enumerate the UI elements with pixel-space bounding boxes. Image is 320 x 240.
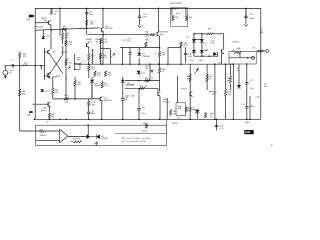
svg-text:C.7: C.7 — [11, 60, 14, 62]
svg-text:C15: C15 — [250, 14, 253, 16]
svg-text:R67: R67 — [175, 17, 178, 19]
svg-text:(D): (D) — [67, 33, 70, 35]
svg-text:16?: 16? — [65, 102, 68, 104]
svg-text:fp74: fp74 — [176, 13, 180, 15]
svg-text:7b: 7b — [151, 78, 153, 80]
svg-text:8P4T5: 8P4T5 — [61, 52, 67, 54]
svg-text:PCB17C: PCB17C — [232, 42, 240, 44]
svg-text:8V0.8UB: 8V0.8UB — [105, 28, 113, 30]
svg-text:10b: 10b — [145, 85, 148, 87]
svg-text:240: 240 — [69, 44, 72, 46]
svg-text:C9: C9 — [46, 121, 48, 123]
svg-text:1.2meg: 1.2meg — [141, 131, 147, 133]
svg-text:3.7S: 3.7S — [103, 41, 108, 43]
svg-text:TDA750: TDA750 — [40, 134, 47, 137]
svg-text:3B0: 3B0 — [90, 24, 93, 26]
svg-text:7Ob: 7Ob — [228, 94, 232, 96]
svg-text:67Oa: 67Oa — [210, 43, 214, 45]
svg-text:GHT81WZN: GHT81WZN — [170, 3, 182, 5]
svg-text:C.61: C.61 — [241, 104, 245, 106]
svg-text:D4?: D4? — [45, 91, 48, 93]
svg-text:1000u: 1000u — [245, 122, 250, 124]
svg-text:DUK: DUK — [245, 131, 250, 134]
svg-text:C13: C13 — [141, 107, 144, 109]
svg-text:760: 760 — [51, 116, 54, 118]
svg-text:D?b: D?b — [190, 60, 193, 62]
svg-text:B6U: B6U — [199, 60, 203, 62]
svg-text:~: ~ — [4, 71, 6, 75]
svg-text:R6?: R6? — [208, 28, 211, 30]
svg-text:670u: 670u — [141, 113, 145, 115]
svg-text:5Bb: 5Bb — [188, 111, 191, 113]
svg-text:C6B: C6B — [131, 95, 135, 97]
svg-text:PCB.7C: PCB.7C — [181, 88, 188, 90]
svg-text:1.25: 1.25 — [220, 128, 224, 130]
svg-text:C6?: C6? — [122, 40, 125, 42]
svg-text:RNW_2: RNW_2 — [40, 132, 47, 134]
svg-text:0.1y: 0.1y — [250, 88, 254, 90]
svg-text:B?7: B?7 — [53, 52, 56, 54]
svg-text:2B0: 2B0 — [145, 36, 148, 38]
svg-text:1p4r: 1p4r — [160, 33, 164, 36]
svg-text:1b8: 1b8 — [92, 104, 95, 106]
svg-text:5b: 5b — [210, 116, 212, 118]
svg-text:PO6: PO6 — [104, 85, 108, 87]
svg-text:8P4T?: 8P4T? — [56, 76, 62, 78]
svg-text:R6b: R6b — [145, 40, 148, 42]
svg-text:7b: 7b — [209, 78, 211, 80]
svg-text:58?: 58? — [173, 113, 176, 115]
svg-text:478: 478 — [77, 84, 80, 86]
svg-text:UN8: UN8 — [26, 19, 30, 21]
svg-text:UN8: UN8 — [27, 115, 31, 117]
svg-text:4.8?: 4.8? — [162, 55, 166, 57]
svg-text:1B0p: 1B0p — [91, 113, 95, 115]
svg-text:(8V0.5B): (8V0.5B) — [104, 100, 112, 102]
svg-text:R66: R66 — [189, 17, 192, 19]
svg-text:80V: 80V — [260, 32, 264, 34]
svg-text:Q14: Q14 — [88, 41, 92, 43]
svg-text:R6?: R6? — [63, 26, 66, 28]
svg-text:8P760: 8P760 — [172, 123, 177, 125]
svg-text:478: 478 — [65, 37, 68, 39]
svg-text:R1Z: R1Z — [125, 95, 129, 97]
svg-text:+C8: +C8 — [46, 35, 50, 37]
svg-text:4b: 4b — [96, 41, 98, 43]
svg-text:R6b: R6b — [145, 78, 148, 80]
svg-text:1.2u: 1.2u — [10, 70, 14, 72]
svg-text:+: + — [60, 132, 62, 134]
svg-text:R6B: R6B — [237, 48, 241, 50]
svg-text:73k: 73k — [227, 80, 230, 82]
svg-text:1.6k: 1.6k — [103, 57, 107, 59]
svg-text:JU?: JU? — [203, 44, 206, 46]
svg-text:1.08: 1.08 — [97, 75, 101, 77]
svg-text:16: 16 — [91, 58, 93, 60]
svg-text:5.6: 5.6 — [162, 71, 165, 73]
svg-text:C6: C6 — [54, 13, 56, 15]
svg-text:HT8 _ fre. beach 8M...59D kHz: HT8 _ fre. beach 8M...59D kHz — [122, 140, 146, 143]
svg-text:478: 478 — [54, 92, 57, 94]
svg-text:/370a: /370a — [249, 18, 255, 20]
svg-text:870: 870 — [69, 63, 72, 65]
svg-text:47k: 47k — [23, 56, 26, 58]
svg-text:2-2meg: 2-2meg — [74, 138, 80, 140]
svg-text:R6O: R6O — [139, 85, 143, 87]
svg-text:HT8 _ Rsat ±5.43 W/m ... ±5.4: HT8 _ Rsat ±5.43 W/m ... ±5.45 W/m — [122, 137, 151, 140]
svg-text:13k: 13k — [25, 65, 28, 67]
svg-text:R6b: R6b — [64, 95, 67, 97]
svg-text:R1b: R1b — [108, 75, 111, 77]
svg-text:+10u: +10u — [126, 41, 130, 43]
svg-text:140p: 140p — [89, 14, 93, 16]
svg-text:D16: D16 — [125, 84, 128, 86]
svg-text:(p4v2): (p4v2) — [41, 110, 47, 112]
svg-text:GTB: GTB — [43, 20, 48, 22]
svg-text:ZRV4-B: ZRV4-B — [101, 138, 108, 140]
svg-text:4B0: 4B0 — [77, 60, 80, 62]
svg-text:80V: 80V — [264, 86, 268, 88]
svg-text:1B?: 1B? — [177, 118, 180, 120]
svg-text:499k: 499k — [22, 94, 26, 96]
svg-text:C.4?: C.4? — [185, 37, 189, 39]
svg-text:4.7k: 4.7k — [184, 45, 188, 47]
svg-text:C.6b: C.6b — [256, 97, 260, 99]
svg-text:AZB: AZB — [178, 107, 182, 110]
svg-text:D16: D16 — [141, 73, 144, 75]
svg-text:2200u: 2200u — [249, 106, 254, 108]
svg-text:137p: 137p — [188, 56, 192, 58]
svg-text:p4?: p4? — [218, 63, 221, 65]
svg-text:84B: 84B — [131, 84, 135, 86]
svg-text:58a: 58a — [145, 68, 149, 70]
svg-text:C17: C17 — [250, 80, 253, 82]
svg-text:C.HK1-A15: C.HK1-A15 — [34, 26, 44, 29]
svg-text:670a: 670a — [143, 17, 148, 19]
svg-text:16: 16 — [91, 69, 93, 71]
svg-text:HC1: HC1 — [212, 94, 216, 96]
svg-text:Rb: Rb — [253, 48, 255, 50]
svg-text:Y5B5UB: Y5B5UB — [142, 56, 150, 58]
svg-text:8U0R6: 8U0R6 — [95, 85, 101, 87]
svg-text:V11: V11 — [8, 73, 12, 75]
svg-text:Z1C0Y4: Z1C0Y4 — [163, 101, 170, 103]
